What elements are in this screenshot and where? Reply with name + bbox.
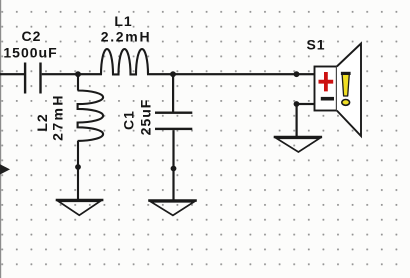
wire C1 branch bottom	[172, 130, 174, 200]
wire speaker bottom pin	[297, 103, 316, 105]
svg-text:S1: S1	[306, 37, 325, 53]
inductor L2 (vertical, arches facing right)	[78, 74, 104, 199]
svg-text:1500uF: 1500uF	[3, 45, 57, 61]
wire C1 branch top	[172, 74, 174, 112]
speaker S1 body rectangle	[315, 67, 337, 111]
inductor L1 (three arches)	[101, 49, 148, 74]
capacitor C1 bottom plate	[155, 128, 192, 130]
capacitor C2 right plate	[39, 63, 41, 94]
svg-text:27mH: 27mH	[50, 93, 66, 141]
svg-text:L1: L1	[114, 13, 132, 29]
svg-text:C2: C2	[22, 28, 42, 44]
svg-text:L2: L2	[34, 113, 50, 131]
node junction dot at speaker bottom pin	[294, 101, 300, 107]
warning exclamation icon (yellow)	[342, 73, 349, 96]
minus sign inside speaker	[321, 97, 334, 101]
node dot on C1 ground wire	[171, 166, 177, 172]
ground under speaker	[274, 136, 322, 138]
plus sign (red) inside speaker	[319, 72, 334, 91]
left window edge line	[0, 0, 1, 278]
left edge arrow marker	[0, 164, 10, 174]
wire main horizontal left segment	[0, 73, 25, 75]
svg-text:C1: C1	[121, 110, 137, 130]
svg-text:25uF: 25uF	[138, 99, 154, 136]
speaker S1 cone	[337, 44, 361, 137]
capacitor C1 top plate	[155, 112, 192, 114]
wire from L1 to speaker	[147, 73, 315, 75]
wire down to speaker ground	[296, 104, 298, 137]
node dot on L2 ground wire	[75, 164, 81, 170]
wire from C2 to L1	[42, 73, 102, 75]
ground under L2	[56, 199, 104, 201]
capacitor C2 left plate	[24, 63, 26, 94]
svg-text:2.2mH: 2.2mH	[101, 29, 152, 45]
node junction dot at L2 branch	[75, 71, 81, 77]
node junction dot at speaker top pin	[294, 71, 300, 77]
ground under C1	[148, 199, 197, 201]
node junction dot at C1 branch	[170, 71, 176, 77]
